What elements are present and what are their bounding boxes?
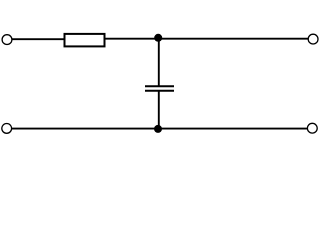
wire: top rail, node A to right terminal: [158, 38, 308, 40]
capacitor C bottom plate: [145, 90, 174, 92]
resistor R: [65, 34, 105, 47]
wire: vertical from capacitor bottom plate down to node B: [158, 91, 160, 129]
node B (bottom junction dot): [154, 125, 162, 133]
wire: top rail, resistor to node A: [106, 38, 159, 40]
node A (top junction dot): [154, 34, 162, 42]
capacitor C top plate: [145, 85, 174, 87]
terminal: output bottom (open circle): [307, 123, 317, 133]
wire: bottom rail, left terminal to right terminal: [11, 128, 307, 130]
terminal: output top (open circle): [308, 34, 318, 44]
wire: top rail, left terminal to resistor: [12, 38, 64, 40]
terminal: input top (open circle): [2, 35, 12, 45]
wire: vertical from node A down to capacitor top plate: [158, 38, 160, 86]
terminal: input bottom (open circle): [2, 123, 12, 133]
